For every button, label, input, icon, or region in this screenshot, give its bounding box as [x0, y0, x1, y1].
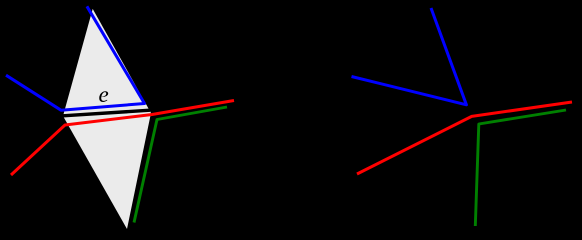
red curve (left figure) — [11, 101, 234, 176]
face fill (gray diamond of two triangles sharing edge e) — [63, 9, 151, 229]
red curve (right figure) — [357, 102, 572, 174]
green curve (left figure) — [134, 107, 227, 223]
blue curve (left figure) — [6, 6, 145, 110]
green curve (right figure) — [475, 110, 566, 226]
edge e (black contracted edge) — [63, 110, 150, 116]
blue curve (right figure, V at contracted vertex) — [352, 8, 467, 105]
svg-text:e: e — [99, 82, 109, 107]
